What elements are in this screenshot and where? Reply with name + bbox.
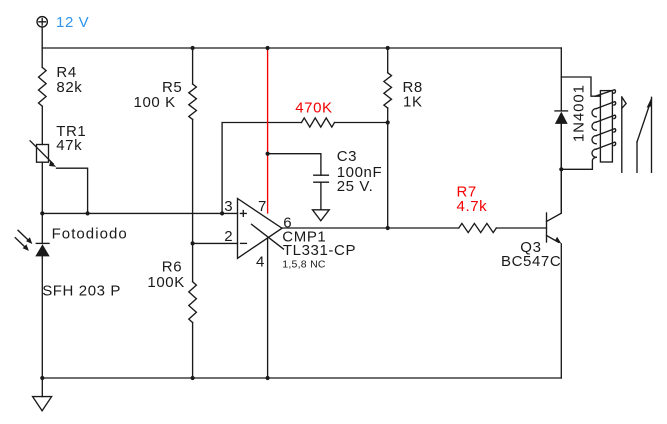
svg-text:25 V.: 25 V. — [337, 178, 374, 195]
svg-text:47k: 47k — [56, 137, 82, 154]
svg-text:3: 3 — [224, 198, 233, 215]
svg-text:SFH 203 P: SFH 203 P — [42, 283, 121, 300]
svg-text:4.7k: 4.7k — [457, 198, 488, 215]
svg-text:C3: C3 — [337, 148, 357, 165]
svg-text:12 V: 12 V — [56, 14, 89, 31]
svg-text:100 K: 100 K — [134, 94, 176, 111]
svg-text:BC547C: BC547C — [501, 253, 561, 270]
svg-text:4: 4 — [256, 254, 265, 271]
svg-text:6: 6 — [283, 215, 292, 232]
svg-text:1K: 1K — [403, 94, 423, 111]
svg-text:470K: 470K — [295, 99, 332, 116]
svg-text:100K: 100K — [147, 274, 184, 291]
svg-text:7: 7 — [258, 198, 267, 215]
svg-text:2: 2 — [224, 228, 233, 245]
svg-text:1,5,8 NC: 1,5,8 NC — [282, 259, 326, 271]
svg-text:TL331-CP: TL331-CP — [283, 242, 356, 259]
svg-text:Fotodiodo: Fotodiodo — [52, 226, 128, 243]
svg-text:1N4001: 1N4001 — [571, 84, 588, 142]
svg-text:R6: R6 — [162, 259, 182, 276]
svg-text:82k: 82k — [56, 79, 82, 96]
